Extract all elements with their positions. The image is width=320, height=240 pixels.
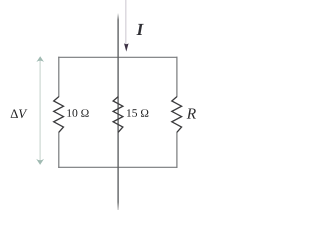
voltage arrow dV: bottom arrowhead (36, 159, 44, 165)
wire: right branch lower segment (176, 132, 178, 168)
resistor R3 (R, right branch) (172, 97, 182, 133)
label I (136, 24, 143, 35)
wire: top rail (58, 56, 177, 58)
label R (187, 108, 196, 118)
wire: left branch upper segment (58, 57, 60, 97)
voltage arrow dV: top arrowhead (36, 56, 44, 62)
resistor R1 (10 ohm, left branch) (54, 97, 64, 133)
wire: bottom rail (58, 166, 177, 168)
label 10 ohm (67, 109, 88, 117)
label dV (V) (19, 110, 27, 119)
current arrow I: shaft (125, 0, 127, 45)
wire: middle branch (enters from top, exits bottom, fades at ends) (117, 13, 119, 210)
label dV (delta) (11, 109, 18, 117)
current arrow I: arrowhead (124, 43, 129, 51)
label 15 ohm (127, 109, 148, 117)
voltage arrow dV: shaft (39, 59, 41, 162)
wire: left branch lower segment (58, 132, 60, 168)
resistor R2 (15 ohm, middle branch) (113, 97, 123, 133)
wire: right branch upper segment (176, 57, 178, 97)
